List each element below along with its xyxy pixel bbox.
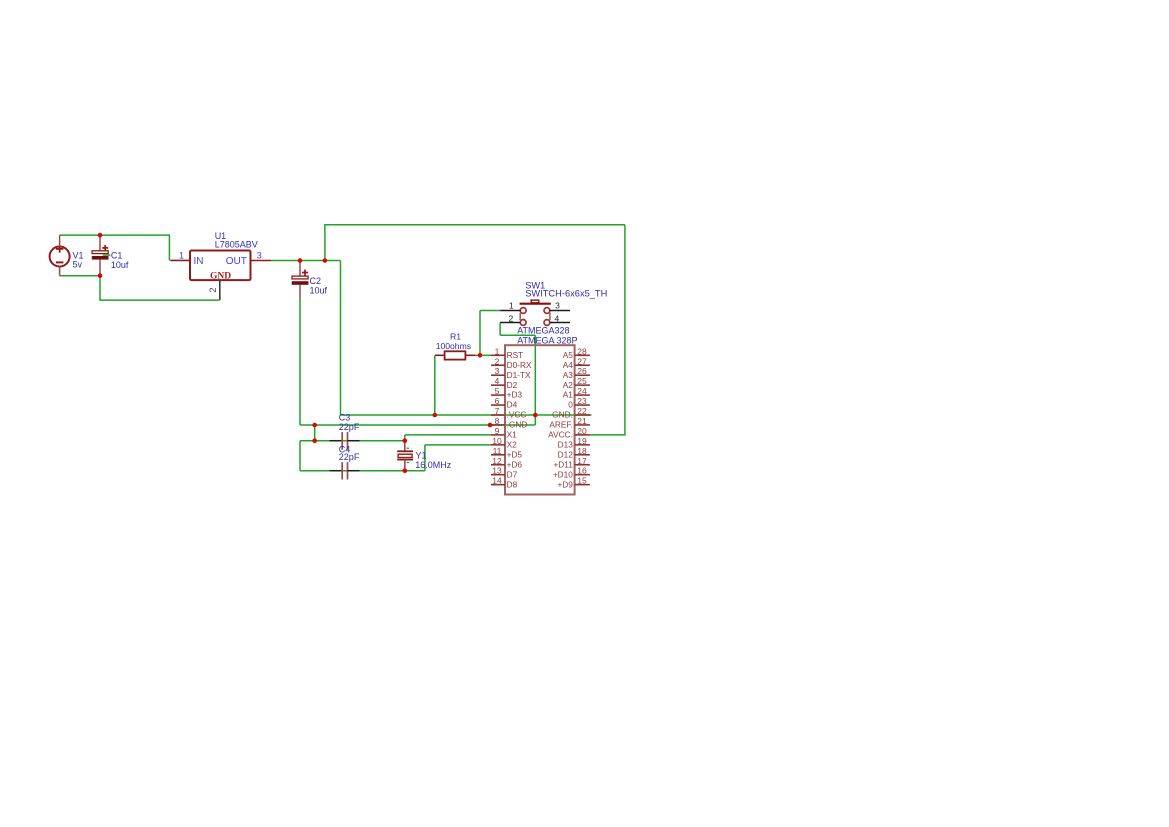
wire stub at C1	[103, 254, 111, 256]
V1 minus sign	[56, 261, 64, 263]
IC pin 17 stub	[575, 464, 590, 466]
junction V- C1 bottom	[98, 273, 103, 278]
SW1 pin 2 line	[500, 322, 520, 324]
Y1 bottom lead	[404, 460, 406, 471]
svg-text:ATMEGA328: ATMEGA328	[517, 326, 569, 336]
IC pin 23 stub	[575, 404, 590, 406]
svg-text:14: 14	[492, 476, 502, 486]
IC pin 20 stub	[575, 434, 590, 436]
wire mid drop through IC	[534, 335, 536, 425]
svg-text:22pF: 22pF	[339, 452, 360, 462]
svg-text:19: 19	[577, 436, 587, 446]
wire SW pin2 drop	[499, 323, 501, 336]
svg-text:18: 18	[577, 446, 587, 456]
junction mid VCC row	[533, 413, 538, 418]
IC pin 3 stub	[491, 374, 505, 376]
svg-text:3: 3	[257, 251, 262, 261]
V1 bottom pin	[59, 267, 61, 276]
wire riser to top net	[324, 224, 326, 260]
IC pin 28 stub	[575, 354, 590, 356]
C3 plates	[341, 432, 343, 450]
SW1 contact circle 1	[520, 308, 526, 314]
capacitor C4 left stub	[330, 470, 343, 472]
svg-text:+D9: +D9	[557, 479, 573, 489]
svg-text:1: 1	[179, 251, 184, 261]
svg-text:7: 7	[495, 406, 500, 416]
svg-text:OUT: OUT	[226, 256, 247, 267]
svg-text:28: 28	[577, 346, 587, 356]
svg-text:25: 25	[577, 376, 587, 386]
Y1 body	[398, 454, 412, 457]
svg-text:16: 16	[577, 466, 587, 476]
wire to SW pin1	[480, 310, 500, 312]
svg-text:22pF: 22pF	[339, 422, 360, 432]
junction C2 top	[298, 258, 303, 263]
svg-text:R1: R1	[450, 331, 461, 341]
V1 plus sign	[56, 248, 64, 250]
C2 plus sign	[302, 272, 308, 274]
svg-text:6: 6	[495, 396, 500, 406]
junction OUT riser	[323, 258, 328, 263]
svg-text:IN: IN	[194, 256, 204, 267]
svg-text:D2: D2	[507, 380, 518, 390]
capacitor C3 left stub	[330, 440, 343, 442]
C3 right stub	[348, 440, 360, 442]
svg-text:C1: C1	[111, 251, 123, 261]
IC pin 25 stub	[575, 384, 590, 386]
svg-text:AREF.: AREF.	[549, 420, 573, 430]
svg-text:2: 2	[509, 313, 514, 323]
IC pin 5 stub	[491, 394, 505, 396]
IC U2 ATMEGA328 body	[505, 345, 575, 494]
C4 right stub	[348, 470, 360, 472]
svg-text:21: 21	[577, 416, 587, 426]
svg-text:+D11: +D11	[553, 459, 573, 469]
SW1 contact circle 2	[520, 320, 526, 326]
svg-text:D12: D12	[558, 449, 574, 459]
wire top rail to U1	[100, 234, 169, 236]
svg-text:+D3: +D3	[507, 390, 523, 400]
svg-text:4: 4	[555, 313, 560, 323]
svg-text:24: 24	[577, 386, 587, 396]
wire gnd link verticals	[314, 425, 316, 441]
IC pin 14 stub	[491, 484, 505, 486]
svg-text:A5: A5	[563, 350, 574, 360]
wire SW pin2 across	[500, 334, 535, 336]
wire drop to U1 IN	[168, 234, 170, 260]
C1 bottom plate	[92, 256, 108, 259]
wire AVCC pin20	[590, 434, 626, 436]
svg-text:5: 5	[495, 386, 500, 396]
wire GND row pin8	[300, 424, 535, 426]
U1 pin 2 GND line	[219, 280, 221, 300]
C4 plates	[341, 462, 343, 479]
wire C1 bottom drop	[99, 276, 101, 300]
SW1 contact circle 3	[544, 308, 550, 314]
IC pin 12 stub	[491, 464, 505, 466]
wire X2 row to pin10	[425, 444, 491, 446]
SW1 pin 3 line	[550, 310, 570, 312]
wire C3 row	[300, 440, 405, 442]
svg-text:D8: D8	[507, 479, 518, 489]
C2 bottom plate	[292, 282, 308, 285]
SW1 pin 1 line	[500, 310, 520, 312]
wire X1 riser	[404, 435, 406, 441]
R1 left lead	[435, 354, 445, 356]
wire X1 row to pin9	[405, 434, 491, 436]
svg-text:D1-TX: D1-TX	[507, 370, 531, 380]
wire SW pin1 drop	[479, 311, 481, 357]
IC pin 21 stub	[575, 424, 590, 426]
svg-text:10uf: 10uf	[111, 260, 129, 270]
wire R1 to IC pin1	[475, 354, 491, 356]
svg-text:ATMEGA 328P: ATMEGA 328P	[517, 335, 577, 345]
svg-text:+D5: +D5	[507, 449, 523, 459]
svg-text:1: 1	[495, 346, 500, 356]
svg-text:13: 13	[492, 466, 502, 476]
junction Y1 top	[403, 438, 408, 443]
svg-text:D13: D13	[558, 439, 574, 449]
svg-text:C2: C2	[310, 276, 322, 286]
svg-text:16.0MHz: 16.0MHz	[415, 460, 452, 470]
R1 right lead	[465, 354, 475, 356]
IC pin 2 stub	[491, 364, 505, 366]
IC pin 19 stub	[575, 444, 590, 446]
svg-text:2: 2	[208, 287, 218, 292]
IC pin 7 stub	[491, 414, 505, 416]
svg-text:A3: A3	[563, 370, 574, 380]
IC pin 1 stub	[491, 354, 505, 356]
IC pin 24 stub	[575, 394, 590, 396]
wire X2 riser	[424, 445, 426, 471]
SW1 button bump	[531, 300, 539, 303]
svg-text:L7805ABV: L7805ABV	[215, 239, 258, 249]
svg-text:22: 22	[577, 406, 587, 416]
junction R1/VCC row	[433, 413, 438, 418]
IC pin 16 stub	[575, 474, 590, 476]
svg-text:4: 4	[495, 376, 500, 386]
Y1 bottom plate	[397, 459, 413, 461]
crystal Y1 top lead	[404, 441, 406, 452]
V1 top pin	[59, 235, 61, 247]
wire bottom row C4	[300, 470, 425, 472]
wire V- bottom	[60, 275, 100, 277]
svg-text:GND: GND	[210, 271, 231, 281]
SW1 right link	[549, 313, 551, 321]
wire gnd to U1 GND pin	[99, 299, 220, 301]
junction GND row	[312, 423, 317, 428]
svg-text:A2: A2	[563, 380, 574, 390]
wire C3 left drop	[299, 441, 301, 471]
svg-text:100ohms: 100ohms	[436, 341, 471, 351]
junction C3 row	[312, 438, 317, 443]
svg-text:8: 8	[495, 416, 500, 426]
svg-text:15: 15	[577, 476, 587, 486]
switch SW1 actuator bar	[520, 303, 551, 305]
junction Y1 bottom	[403, 468, 408, 473]
wire speck Y1 top	[407, 447, 410, 449]
svg-text:AVCC.: AVCC.	[548, 430, 573, 440]
svg-text:3: 3	[555, 300, 560, 310]
svg-text:RST: RST	[507, 350, 524, 360]
svg-text:GND.: GND.	[552, 410, 573, 420]
svg-text:5v: 5v	[73, 260, 83, 270]
U1 pin 1 line	[170, 259, 190, 261]
svg-text:26: 26	[577, 366, 587, 376]
C1 top plate	[92, 251, 108, 254]
svg-text:A4: A4	[563, 360, 574, 370]
IC pin 9 stub	[491, 434, 505, 436]
svg-text:D7: D7	[507, 469, 518, 479]
IC pin 10 stub	[491, 444, 505, 446]
svg-text:2: 2	[495, 356, 500, 366]
svg-text:D0-RX: D0-RX	[507, 360, 532, 370]
SW1 contact circle 4	[544, 320, 550, 326]
svg-text:27: 27	[577, 356, 587, 366]
regulator U1 body	[190, 251, 251, 281]
svg-text:X1: X1	[507, 430, 518, 440]
svg-text:9: 9	[495, 426, 500, 436]
wire VCC row through IC to pin22	[341, 414, 592, 416]
wire R1 left drop	[434, 355, 436, 415]
svg-text:X2: X2	[507, 439, 518, 449]
svg-text:10: 10	[492, 436, 502, 446]
svg-text:+D10: +D10	[553, 469, 573, 479]
C2 bottom pin	[299, 285, 301, 298]
IC pin 15 stub	[575, 484, 590, 486]
voltage source V1 body	[50, 247, 70, 267]
IC pin 18 stub	[575, 454, 590, 456]
svg-text:A1: A1	[563, 390, 574, 400]
svg-text:12: 12	[492, 456, 502, 466]
IC pin 13 stub	[491, 474, 505, 476]
svg-text:17: 17	[577, 456, 587, 466]
capacitor C2 top pin	[299, 261, 301, 277]
svg-text:10uf: 10uf	[310, 286, 328, 296]
wire U1 OUT row	[271, 260, 341, 262]
IC pin 6 stub	[491, 404, 505, 406]
svg-text:SWITCH-6x6x5_TH: SWITCH-6x6x5_TH	[525, 289, 607, 299]
svg-text:11: 11	[493, 446, 502, 456]
svg-text:.VCC: .VCC	[507, 410, 527, 420]
IC pin 27 stub	[575, 364, 590, 366]
wire C2 gnd rail	[299, 297, 301, 426]
svg-text:+D6: +D6	[507, 459, 523, 469]
svg-text:3: 3	[495, 366, 500, 376]
junction R1 right	[478, 353, 483, 358]
svg-text:23: 23	[577, 396, 587, 406]
wire top net long	[324, 224, 625, 226]
wire right drop to AVCC	[624, 225, 626, 435]
junction pin8	[488, 423, 493, 428]
IC pin 22 stub	[575, 414, 590, 416]
svg-text:D4: D4	[507, 400, 518, 410]
IC pin 11 stub	[491, 454, 505, 456]
wire V+ top rail	[60, 234, 100, 236]
junction V+ C1 top	[98, 233, 103, 238]
IC pin 8 stub	[491, 424, 505, 426]
SW1 pin 4 line	[550, 322, 570, 324]
C1 bottom pin	[99, 259, 101, 275]
SW1 left link	[519, 313, 521, 321]
U1 pin 3 line	[251, 260, 271, 262]
wire speck Y1 bottom	[407, 462, 410, 464]
resistor R1 body	[445, 351, 466, 359]
svg-text:.GND: .GND	[507, 420, 528, 430]
C2 top plate	[292, 276, 308, 279]
IC pin 4 stub	[491, 384, 505, 386]
svg-text:0: 0	[568, 400, 573, 410]
wire drop OUT to VCC row	[340, 261, 342, 416]
C1 plus sign	[102, 247, 108, 249]
capacitor C1 top pin	[99, 235, 101, 251]
svg-text:20: 20	[577, 426, 587, 436]
IC pin 26 stub	[575, 374, 590, 376]
svg-text:1: 1	[509, 300, 514, 310]
Y1 top plate	[397, 450, 413, 452]
